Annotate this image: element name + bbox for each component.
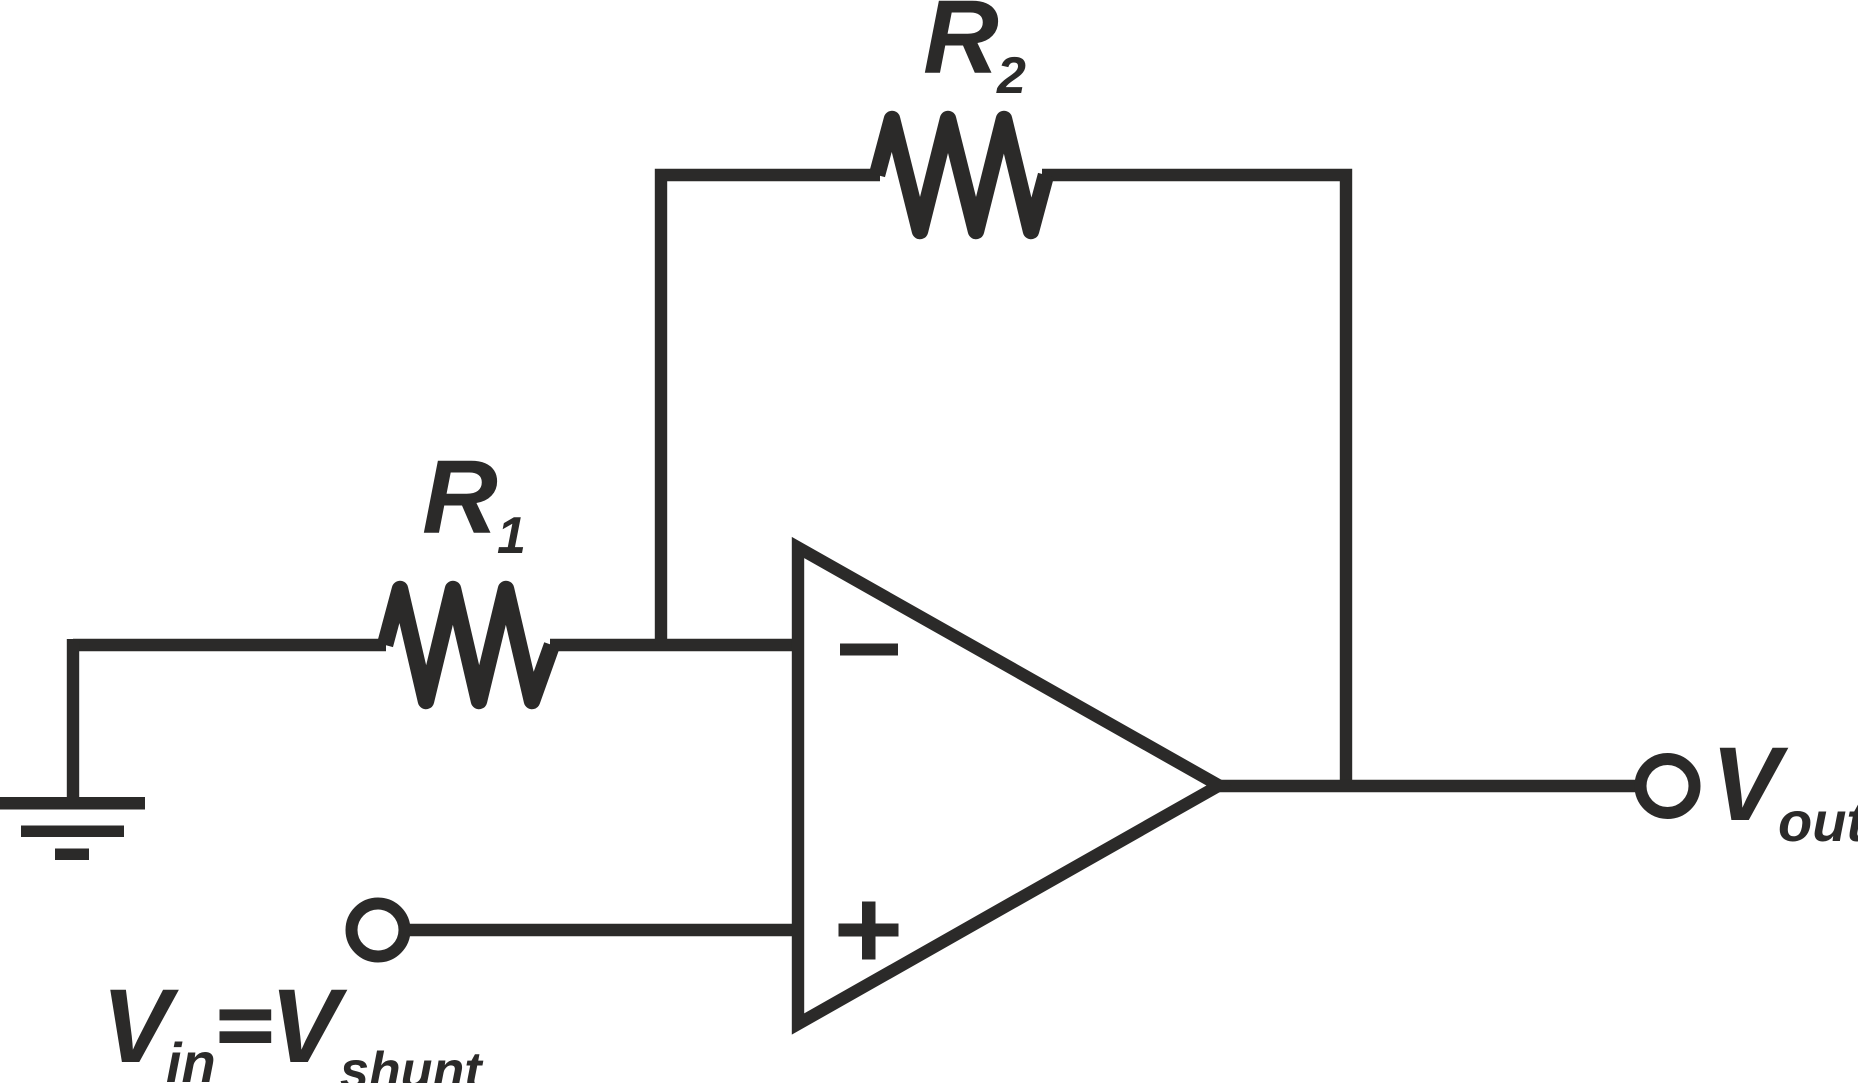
terminal Vin [352, 904, 405, 957]
wire output [1207, 780, 1636, 792]
resistor R1 [385, 589, 552, 701]
svg-text:R: R [923, 0, 999, 96]
svg-text:shunt: shunt [340, 1042, 484, 1083]
op-amp U1 [798, 548, 1219, 1025]
op-amp plus pin label [839, 902, 899, 960]
wire top-right horizontal + feedback right vertical [1042, 175, 1346, 792]
label Vout [1711, 726, 1858, 853]
terminal Vout [1641, 759, 1695, 813]
wire ground stem [67, 639, 79, 800]
svg-text:1: 1 [497, 507, 526, 565]
svg-text:out: out [1778, 790, 1858, 853]
wire feedback left vertical + top-left horizontal [661, 175, 880, 651]
label Vin = Vshunt [102, 968, 485, 1083]
svg-text:V: V [270, 968, 348, 1083]
label R2 [923, 0, 1026, 105]
svg-text:in: in [166, 1031, 216, 1083]
label R1 [422, 439, 526, 565]
ground [0, 797, 145, 860]
op-amp minus pin label [840, 644, 898, 656]
svg-text:R: R [422, 439, 498, 556]
wire R1 to inverting input [550, 639, 798, 651]
wire ground to R1 [73, 639, 386, 651]
resistor R2 [877, 119, 1046, 231]
svg-text:2: 2 [996, 47, 1026, 105]
wire noninverting input [406, 924, 798, 936]
